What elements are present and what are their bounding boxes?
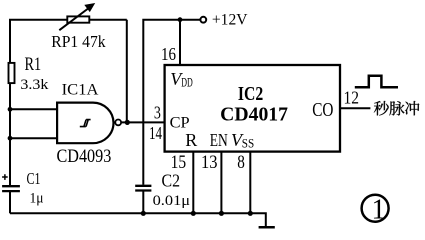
wire CO pin 12 [340,107,370,109]
wire left rail [9,20,11,187]
svg-text:+12V: +12V [212,12,248,29]
IC2 box [165,65,340,152]
svg-text:CD4093: CD4093 [57,147,112,167]
svg-text:RP1 47k: RP1 47k [51,32,106,51]
svg-text:15: 15 [171,152,187,173]
junction dot NAND input 2 [8,136,13,141]
svg-text:0.01μ: 0.01μ [153,193,191,209]
wire NAND input 1 [10,108,58,110]
junction dot pin8 ground [248,211,253,216]
svg-text:EN: EN [210,130,228,150]
svg-text:3: 3 [154,103,161,123]
junction dot NAND input 1 [8,107,13,112]
svg-text:12: 12 [344,88,360,108]
svg-text:C2: C2 [162,171,181,191]
label chong [405,101,419,115]
junction dot pin15 ground [191,211,196,216]
NAND output bubble [115,120,121,126]
wire pin13 lead [220,152,222,214]
junction dot C2 ground [141,211,146,216]
wire +12V rail and C2 drop [143,20,200,185]
svg-text:1μ: 1μ [30,190,44,206]
wire pin15 lead [192,152,194,214]
svg-text:16: 16 [161,44,176,64]
wire C2 bottom lead [142,191,144,213]
junction dot +12V rail [178,17,183,22]
figure number circle [362,195,389,222]
svg-text:DD: DD [181,76,193,90]
svg-text:R: R [185,130,197,150]
svg-text:CD4017: CD4017 [220,104,288,125]
wire top feedback [9,19,127,21]
C1 plus sign [2,174,8,180]
wire pin8 lead [249,152,251,214]
+12V terminal circle [200,17,206,23]
svg-text:IC2: IC2 [238,84,263,105]
svg-text:3.3k: 3.3k [20,77,49,93]
capacitor C2 [135,186,151,191]
wire ground rail [10,213,266,226]
label mai (pulse) [389,101,404,115]
svg-text:C1: C1 [27,169,41,188]
wire NAND output to CP [121,121,164,123]
wire NAND input 2 [10,137,58,139]
wire C1 bottom lead [9,191,11,213]
svg-text:CO: CO [312,99,333,121]
ground symbol [259,226,275,229]
wire feedback drop to gate output [126,20,128,123]
potentiometer RP1 [59,3,95,30]
resistor R1 [9,63,15,83]
svg-text:CP: CP [170,112,190,131]
Schmitt hysteresis symbol [80,120,91,127]
svg-text:13: 13 [201,152,218,173]
capacitor C1 (electrolytic) [2,186,20,191]
svg-text:14: 14 [149,123,162,143]
svg-text:R1: R1 [25,55,42,75]
pulse waveform symbol [355,76,398,88]
svg-text:1: 1 [372,195,386,226]
NAND gate IC1A body [57,103,113,144]
label miao (second) [374,101,389,115]
svg-text:SS: SS [242,137,254,151]
wire pin16 lead [179,20,181,65]
svg-text:8: 8 [237,152,245,173]
junction dot gate output [125,120,130,125]
svg-text:IC1A: IC1A [62,82,100,99]
junction dot pin13 ground [219,211,224,216]
